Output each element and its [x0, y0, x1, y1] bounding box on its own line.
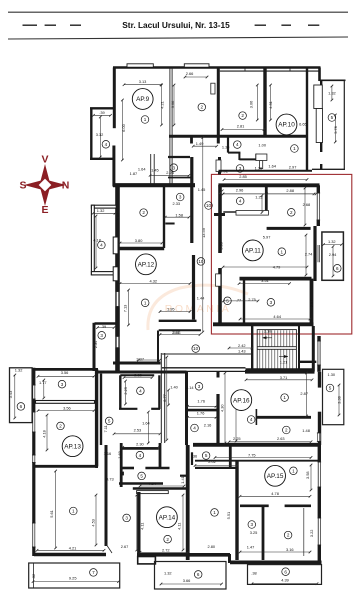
- svg-text:1.22: 1.22: [255, 194, 263, 199]
- room number circle AP.15 room 2: [284, 531, 292, 539]
- svg-text:3.56: 3.56: [61, 370, 69, 375]
- svg-text:1.77: 1.77: [39, 380, 47, 385]
- svg-text:S: S: [19, 180, 26, 192]
- svg-text:3.06: 3.06: [170, 101, 175, 109]
- wall above AP.9 room3: [168, 156, 190, 158]
- north wall AP.10 outlined band: [220, 68, 320, 71]
- svg-text:2.87: 2.87: [300, 391, 308, 396]
- bathroom AP.13 east wall: [158, 375, 160, 409]
- window AP.15 hall east: [318, 462, 321, 487]
- svg-text:2.34: 2.34: [93, 340, 98, 348]
- south wall AP.9 / north wall AP.12: [113, 183, 195, 187]
- svg-text:3.69: 3.69: [219, 242, 224, 250]
- svg-text:4: 4: [105, 142, 108, 147]
- svg-text:3: 3: [100, 333, 103, 338]
- window AP.13 room2: [32, 412, 35, 432]
- apartment label AP.12: [136, 254, 157, 275]
- room number circle AP.15 hall 5: [202, 452, 210, 460]
- room number circle AP.14 balcony 6: [194, 571, 202, 579]
- svg-text:8.77: 8.77: [162, 394, 167, 402]
- stairwell west wall: [251, 326, 253, 372]
- main west wall AP.12: [115, 185, 120, 371]
- svg-text:3: 3: [270, 300, 273, 305]
- room number circle AP.11 balcony 6: [334, 265, 342, 273]
- cabinet stub AP.12: [165, 223, 174, 225]
- room number circle AP.13 balcony 7: [90, 569, 98, 577]
- svg-text:AP.13: AP.13: [64, 443, 81, 450]
- partition AP.11 room1/room3: [240, 277, 312, 281]
- partition AP.9 room1/room2 right line: [171, 68, 173, 186]
- svg-text:9.25: 9.25: [69, 575, 77, 580]
- svg-text:2.94: 2.94: [329, 252, 337, 257]
- partition AP.15 room2 top: [285, 504, 311, 507]
- svg-text:2.25: 2.25: [233, 436, 241, 441]
- east exterior wall at balcony AP.10: [320, 81, 322, 152]
- svg-text:2.80: 2.80: [208, 544, 216, 549]
- svg-text:2.72: 2.72: [162, 547, 170, 552]
- svg-text:4.11: 4.11: [140, 523, 145, 530]
- north wall AP.13 rooms: [32, 368, 98, 371]
- svg-text:Str. Lacul Ursului, Nr. 13-15: Str. Lacul Ursului, Nr. 13-15: [122, 20, 230, 30]
- svg-text:1.49: 1.49: [196, 141, 204, 146]
- balcony AP.16 outline: [323, 369, 344, 424]
- room number circle AP.10 room 1: [291, 145, 299, 153]
- svg-text:1.45: 1.45: [151, 167, 159, 172]
- svg-text:2.67: 2.67: [121, 544, 129, 549]
- svg-text:2.88: 2.88: [286, 188, 294, 193]
- room number circle AP.13 room 3b: [123, 514, 131, 522]
- svg-text:AP.16: AP.16: [233, 397, 250, 404]
- svg-text:10: 10: [193, 346, 199, 351]
- svg-text:2.85: 2.85: [239, 174, 247, 179]
- partition AP.11 room5/room3: [243, 279, 245, 324]
- door leaf AP.13 room1: [106, 544, 112, 553]
- room number circle AP.10 room 3: [236, 165, 244, 173]
- room number circle AP.13 hall 5: [105, 417, 113, 425]
- bathroom AP.13 top wall: [120, 374, 154, 376]
- svg-text:4.78: 4.78: [271, 491, 279, 496]
- svg-text:1: 1: [292, 468, 295, 473]
- pillar shaft upper right: [314, 85, 323, 109]
- stair mid rail a: [257, 346, 296, 348]
- hook wall AP.13 hall: [95, 459, 98, 469]
- svg-text:1.64: 1.64: [142, 420, 150, 425]
- svg-text:1.34: 1.34: [222, 145, 230, 150]
- window AP.13 room1: [32, 523, 35, 547]
- corridor south wall west outline a: [162, 367, 246, 369]
- svg-text:2.16: 2.16: [204, 423, 212, 428]
- balcony AP.11 outline: [322, 232, 344, 280]
- room number circle AP.12 room 1: [141, 299, 149, 307]
- svg-text:2.18: 2.18: [264, 329, 272, 334]
- east exterior wall above AP.16: [317, 336, 320, 372]
- svg-text:5.78: 5.78: [333, 126, 338, 134]
- room number circle AP.16 balcony 5: [326, 384, 334, 392]
- west exterior wall AP.13: [32, 368, 35, 556]
- window AP.13 room3: [32, 385, 35, 399]
- svg-text:7.75: 7.75: [248, 452, 256, 457]
- svg-text:5: 5: [329, 386, 332, 391]
- north wall AP.13: [95, 371, 187, 374]
- window AP.13 room1 upper: [32, 455, 35, 463]
- svg-text:1.36: 1.36: [255, 165, 263, 170]
- jog wall AP.15 hall west: [191, 452, 193, 465]
- shaft box on west wall AP.11: [216, 274, 221, 286]
- south wall AP.16: [193, 443, 321, 447]
- svg-text:1.02: 1.02: [220, 168, 228, 173]
- svg-text:V: V: [41, 154, 48, 166]
- south wall AP.14: [137, 553, 230, 557]
- svg-text:.77: .77: [236, 298, 241, 303]
- room number circle AP.10 room 4: [234, 141, 242, 149]
- room number circle corridor 10 upper: [205, 202, 213, 210]
- bathroom AP.13 bottom wall a: [119, 408, 137, 410]
- west wall AP.11 upper: [218, 185, 222, 253]
- room number circle AP.14 room 2: [164, 535, 172, 543]
- corridor south wall west outline b: [162, 370, 246, 372]
- svg-text:4.24: 4.24: [148, 481, 156, 486]
- right dash 2: [281, 24, 291, 26]
- corridor south wall: [246, 368, 315, 372]
- svg-text:2.57: 2.57: [309, 300, 314, 308]
- corridor2 west line: [160, 353, 162, 443]
- svg-text:6: 6: [284, 569, 287, 574]
- svg-text:5: 5: [108, 419, 111, 424]
- window AP.9 room2 north: [184, 64, 209, 67]
- svg-text:2.30: 2.30: [134, 373, 142, 378]
- west wall AP.15/party AP.14: [186, 445, 190, 560]
- partition AP.14/AP.15 rooms: [235, 460, 238, 560]
- stair mid rail b: [257, 348, 296, 350]
- svg-text:AP.9: AP.9: [136, 96, 149, 103]
- apartment label AP.11: [242, 240, 263, 261]
- svg-text:N: N: [62, 180, 70, 192]
- partition AP.10 hall b: [228, 152, 240, 154]
- svg-text:AP.14: AP.14: [159, 514, 176, 521]
- pier on east rooms wall: [121, 472, 124, 476]
- svg-text:4: 4: [100, 243, 103, 248]
- svg-text:3.32: 3.32: [96, 132, 104, 137]
- svg-text:1.47: 1.47: [247, 544, 255, 549]
- balcony AP.10 top edge: [320, 79, 346, 81]
- svg-text:4.30: 4.30: [219, 404, 224, 412]
- corridor west wall upper: [190, 157, 193, 243]
- wall AP.13 east rooms west side: [120, 443, 123, 487]
- east exterior wall AP.11 mid: [313, 226, 316, 281]
- svg-text:5: 5: [331, 115, 334, 120]
- shaft box corridor east: [216, 160, 221, 172]
- apartment label AP.15: [265, 465, 286, 486]
- svg-text:5: 5: [205, 453, 208, 458]
- svg-text:2.42: 2.42: [238, 343, 246, 348]
- room number circle AP.11 room 5: [224, 297, 232, 305]
- watermark swoosh: [148, 285, 248, 330]
- svg-text:3.66: 3.66: [183, 578, 191, 583]
- partition AP.15 room3/room2: [262, 506, 265, 560]
- south wall AP.11: [213, 322, 314, 326]
- svg-text:3.38: 3.38: [336, 396, 341, 404]
- divider AP.13 east rooms b: [145, 467, 169, 470]
- outlined wall bar AP.14 north: [137, 491, 169, 494]
- svg-text:3: 3: [179, 195, 182, 200]
- svg-text:2.25: 2.25: [123, 387, 128, 395]
- svg-text:3.51: 3.51: [261, 278, 269, 283]
- annex room4 AP.9 bottom wall: [90, 158, 115, 160]
- svg-text:1.32: 1.32: [15, 368, 23, 373]
- window AP.16 room2: [317, 433, 320, 442]
- room number circle AP.13 room 2: [57, 422, 65, 430]
- balcony door line a: [317, 245, 319, 262]
- window AP.9 room1 north: [127, 64, 153, 67]
- room4 AP.12 west wall: [91, 205, 94, 275]
- left dash 1: [23, 24, 38, 26]
- svg-text:1.21: 1.21: [280, 359, 288, 364]
- svg-text:4: 4: [239, 199, 242, 204]
- svg-text:4: 4: [139, 388, 142, 393]
- pillar shaft lower right: [316, 109, 322, 143]
- partition AP.14 top room: [180, 475, 188, 477]
- svg-text:1.64: 1.64: [268, 163, 276, 168]
- partition AP.10 hall c: [238, 153, 240, 160]
- svg-text:10: 10: [206, 203, 212, 208]
- svg-text:AP.11: AP.11: [245, 248, 262, 255]
- svg-text:3: 3: [173, 165, 176, 170]
- dim line AP.15 room2 height: [303, 508, 305, 556]
- svg-text:.32: .32: [31, 574, 36, 579]
- svg-text:3.71: 3.71: [280, 375, 288, 380]
- balcony AP.13 south outline: [29, 563, 120, 588]
- pilaster block b on AP.12 west wall: [113, 267, 118, 281]
- svg-text:6: 6: [336, 266, 339, 271]
- svg-text:2.74: 2.74: [305, 252, 313, 257]
- window AP.15 room2 east: [318, 518, 321, 545]
- svg-text:3.56: 3.56: [63, 406, 71, 411]
- svg-text:6: 6: [197, 572, 200, 577]
- room number circle AP.13 room 4b: [136, 451, 144, 459]
- svg-text:1.45: 1.45: [198, 187, 206, 192]
- room4 AP.12 top wall: [91, 205, 116, 208]
- svg-text:3.58: 3.58: [305, 471, 310, 479]
- svg-text:4.21: 4.21: [159, 101, 164, 109]
- north wall AP.14: [133, 487, 186, 490]
- svg-text:AP.12: AP.12: [138, 262, 155, 269]
- svg-text:1.30: 1.30: [328, 372, 336, 377]
- svg-text:1.76: 1.76: [197, 411, 205, 416]
- room number circle AP.15 room 3: [248, 521, 256, 529]
- north wall AP.16: [245, 370, 315, 374]
- west wall AP.11 lower: [218, 268, 222, 324]
- bathroom AP.13 west wall: [119, 375, 121, 409]
- north exterior wall AP.9/AP.10: [113, 66, 321, 69]
- svg-text:2: 2: [201, 105, 204, 110]
- svg-text:3.43: 3.43: [8, 391, 13, 399]
- svg-text:1: 1: [72, 509, 75, 514]
- window AP.11 room2: [317, 193, 320, 220]
- svg-text:1: 1: [144, 300, 147, 305]
- west wall AP.14: [137, 492, 140, 556]
- svg-text:1.95: 1.95: [167, 307, 175, 312]
- balcony step line: [33, 563, 35, 588]
- svg-text:2.66: 2.66: [186, 71, 194, 76]
- svg-text:6.65: 6.65: [299, 122, 307, 127]
- svg-text:AP.10: AP.10: [278, 122, 295, 129]
- svg-text:5.97: 5.97: [263, 234, 271, 239]
- door tick AP.11 room4: [219, 190, 224, 195]
- partition AP.10 hall e: [255, 154, 257, 161]
- room number circle corridor 10 mid: [197, 258, 205, 266]
- svg-text:3.80: 3.80: [135, 238, 143, 243]
- partition AP.16 rooms3-4/hall: [216, 394, 219, 445]
- svg-text:2: 2: [142, 210, 145, 215]
- partition AP.10 hall a: [227, 137, 229, 153]
- east wall AP.11 room3: [310, 279, 314, 325]
- svg-text:.38: .38: [251, 570, 256, 575]
- pier stub AP.11 west: [214, 213, 225, 216]
- svg-text:2.33: 2.33: [173, 201, 181, 206]
- room number circle AP.10 room 2: [239, 112, 247, 120]
- svg-text:3: 3: [61, 382, 64, 387]
- svg-text:4.53: 4.53: [91, 519, 96, 527]
- east exterior wall stub below balcony door: [320, 164, 322, 170]
- wall below AP.9 room3: [168, 177, 192, 179]
- room number circle AP.9 room 3: [170, 164, 178, 172]
- hall south wall AP.15: [195, 460, 320, 462]
- svg-text:1.32: 1.32: [164, 571, 172, 576]
- west wall AP.16: [185, 372, 188, 445]
- partition AP.9 room3 west line a: [150, 154, 152, 186]
- svg-text:2.63: 2.63: [277, 436, 285, 441]
- svg-text:1: 1: [293, 146, 296, 151]
- partition AP.16 rooms/hall upper stub: [217, 372, 220, 378]
- window AP.12 west wall: [116, 292, 119, 307]
- svg-text:5.61: 5.61: [49, 510, 54, 518]
- svg-text:7: 7: [92, 570, 95, 575]
- svg-text:2.02: 2.02: [208, 459, 216, 464]
- svg-text:3.22: 3.22: [309, 530, 314, 538]
- svg-text:2.81: 2.81: [173, 330, 181, 335]
- svg-text:.36: .36: [192, 454, 197, 459]
- room number circle AP.9 room 4: [102, 141, 110, 149]
- svg-text:3.25: 3.25: [250, 530, 258, 535]
- kitchen counter box AP.11: [236, 211, 268, 216]
- hall west wall AP.13: [100, 374, 102, 445]
- svg-text:1.32: 1.32: [328, 239, 336, 244]
- svg-text:2.97: 2.97: [289, 164, 297, 169]
- svg-text:2.68: 2.68: [303, 202, 311, 207]
- corridor bottom wall b: [159, 329, 201, 331]
- svg-text:2.26: 2.26: [166, 170, 174, 175]
- kitchen counter AP.11: [223, 211, 247, 213]
- svg-text:2.75: 2.75: [248, 297, 256, 302]
- porch stub AP.14: [138, 557, 156, 564]
- east wall AP.10 room1: [306, 68, 308, 172]
- partition AP.13 room2/room1: [33, 465, 97, 468]
- room number circle AP.16 room 4b: [247, 416, 255, 424]
- room number circle AP.16 room 3: [195, 383, 203, 391]
- svg-text:10: 10: [198, 259, 204, 264]
- east exterior wall AP.16 lower: [318, 412, 321, 445]
- north wall AP.11: [218, 183, 319, 187]
- left dash 2: [45, 24, 56, 26]
- svg-text:1.43: 1.43: [238, 349, 246, 354]
- svg-text:4: 4: [250, 417, 253, 422]
- svg-text:1.40: 1.40: [170, 385, 178, 390]
- wall AP.13 east rooms top: [122, 447, 159, 449]
- compass rose: [26, 166, 64, 204]
- svg-text:3: 3: [198, 384, 201, 389]
- svg-text:1.32: 1.32: [97, 208, 105, 213]
- north wall AP.12 room3: [95, 322, 117, 324]
- balcony AP.10 bottom edge: [312, 168, 345, 170]
- svg-text:2: 2: [285, 428, 288, 433]
- room number circle AP.12 room 2: [140, 209, 148, 217]
- apartment label AP.14: [157, 507, 178, 528]
- svg-text:4.31: 4.31: [268, 101, 273, 109]
- svg-text:4.18: 4.18: [42, 430, 47, 438]
- room number circle corridor 10 lower: [192, 345, 200, 353]
- room number circle AP.16 room 1: [281, 394, 289, 402]
- corridor bottom wall a: [159, 320, 197, 322]
- svg-text:7.13: 7.13: [123, 305, 128, 313]
- red highlight rectangle around AP.11: [211, 174, 351, 334]
- partition AP.10 room2/room1: [263, 68, 266, 137]
- svg-text:1.44: 1.44: [197, 295, 205, 300]
- window east above AP.16: [317, 341, 320, 365]
- balcony AP.14 outline: [155, 562, 227, 590]
- room number circle AP.9 room 2: [198, 103, 206, 111]
- corridor west wall lower: [192, 255, 195, 320]
- annex room4 AP.9 top wall: [90, 107, 114, 109]
- west exterior wall AP.9 lower: [112, 146, 115, 187]
- dimension lines group: [14, 76, 343, 586]
- jog wall AP.14/AP.15 south: [228, 554, 231, 563]
- stair treads: [260, 330, 293, 369]
- svg-text:1: 1: [213, 510, 216, 515]
- svg-text:1.41: 1.41: [180, 476, 185, 484]
- partition AP.15 room3 top: [240, 504, 269, 507]
- east exterior wall AP.15: [318, 445, 321, 563]
- stair arrow down flight: [279, 355, 288, 358]
- apartment label AP.13: [62, 436, 83, 457]
- svg-text:4.21: 4.21: [69, 545, 77, 550]
- room number circle AP.12 room 3: [176, 193, 184, 201]
- wall AP.13 east rooms bottom: [119, 482, 163, 484]
- room number circle AP.13 room 1: [70, 507, 78, 515]
- party wall AP.9/AP.10: [217, 68, 220, 144]
- svg-text:4: 4: [236, 142, 239, 147]
- svg-text:.39: .39: [99, 110, 104, 115]
- left dash 3: [70, 24, 81, 26]
- svg-text:3: 3: [125, 516, 128, 521]
- partition AP.13 room3/room2: [36, 401, 95, 404]
- pilaster block a on AP.12 west wall: [113, 237, 118, 254]
- east wall AP.13 room1: [105, 445, 108, 546]
- svg-text:2: 2: [287, 533, 290, 538]
- svg-text:2: 2: [166, 537, 169, 542]
- svg-text:3: 3: [251, 522, 254, 527]
- balcony AP.15 outline: [248, 565, 322, 585]
- room number circle AP.11 room 2: [288, 209, 296, 217]
- east wall AP.12 room2: [163, 187, 165, 249]
- room number circle AP.13 balcony 6: [17, 403, 25, 411]
- room number circle AP.12 room 3b: [98, 332, 106, 340]
- right dash 1: [255, 24, 266, 26]
- partition AP.12 room2/room1: [118, 247, 165, 251]
- room4 AP.12 bottom wall: [91, 272, 116, 275]
- svg-text:1.02: 1.02: [115, 213, 120, 221]
- svg-text:6: 6: [20, 404, 23, 409]
- room number circle AP.13 room 4: [137, 387, 145, 395]
